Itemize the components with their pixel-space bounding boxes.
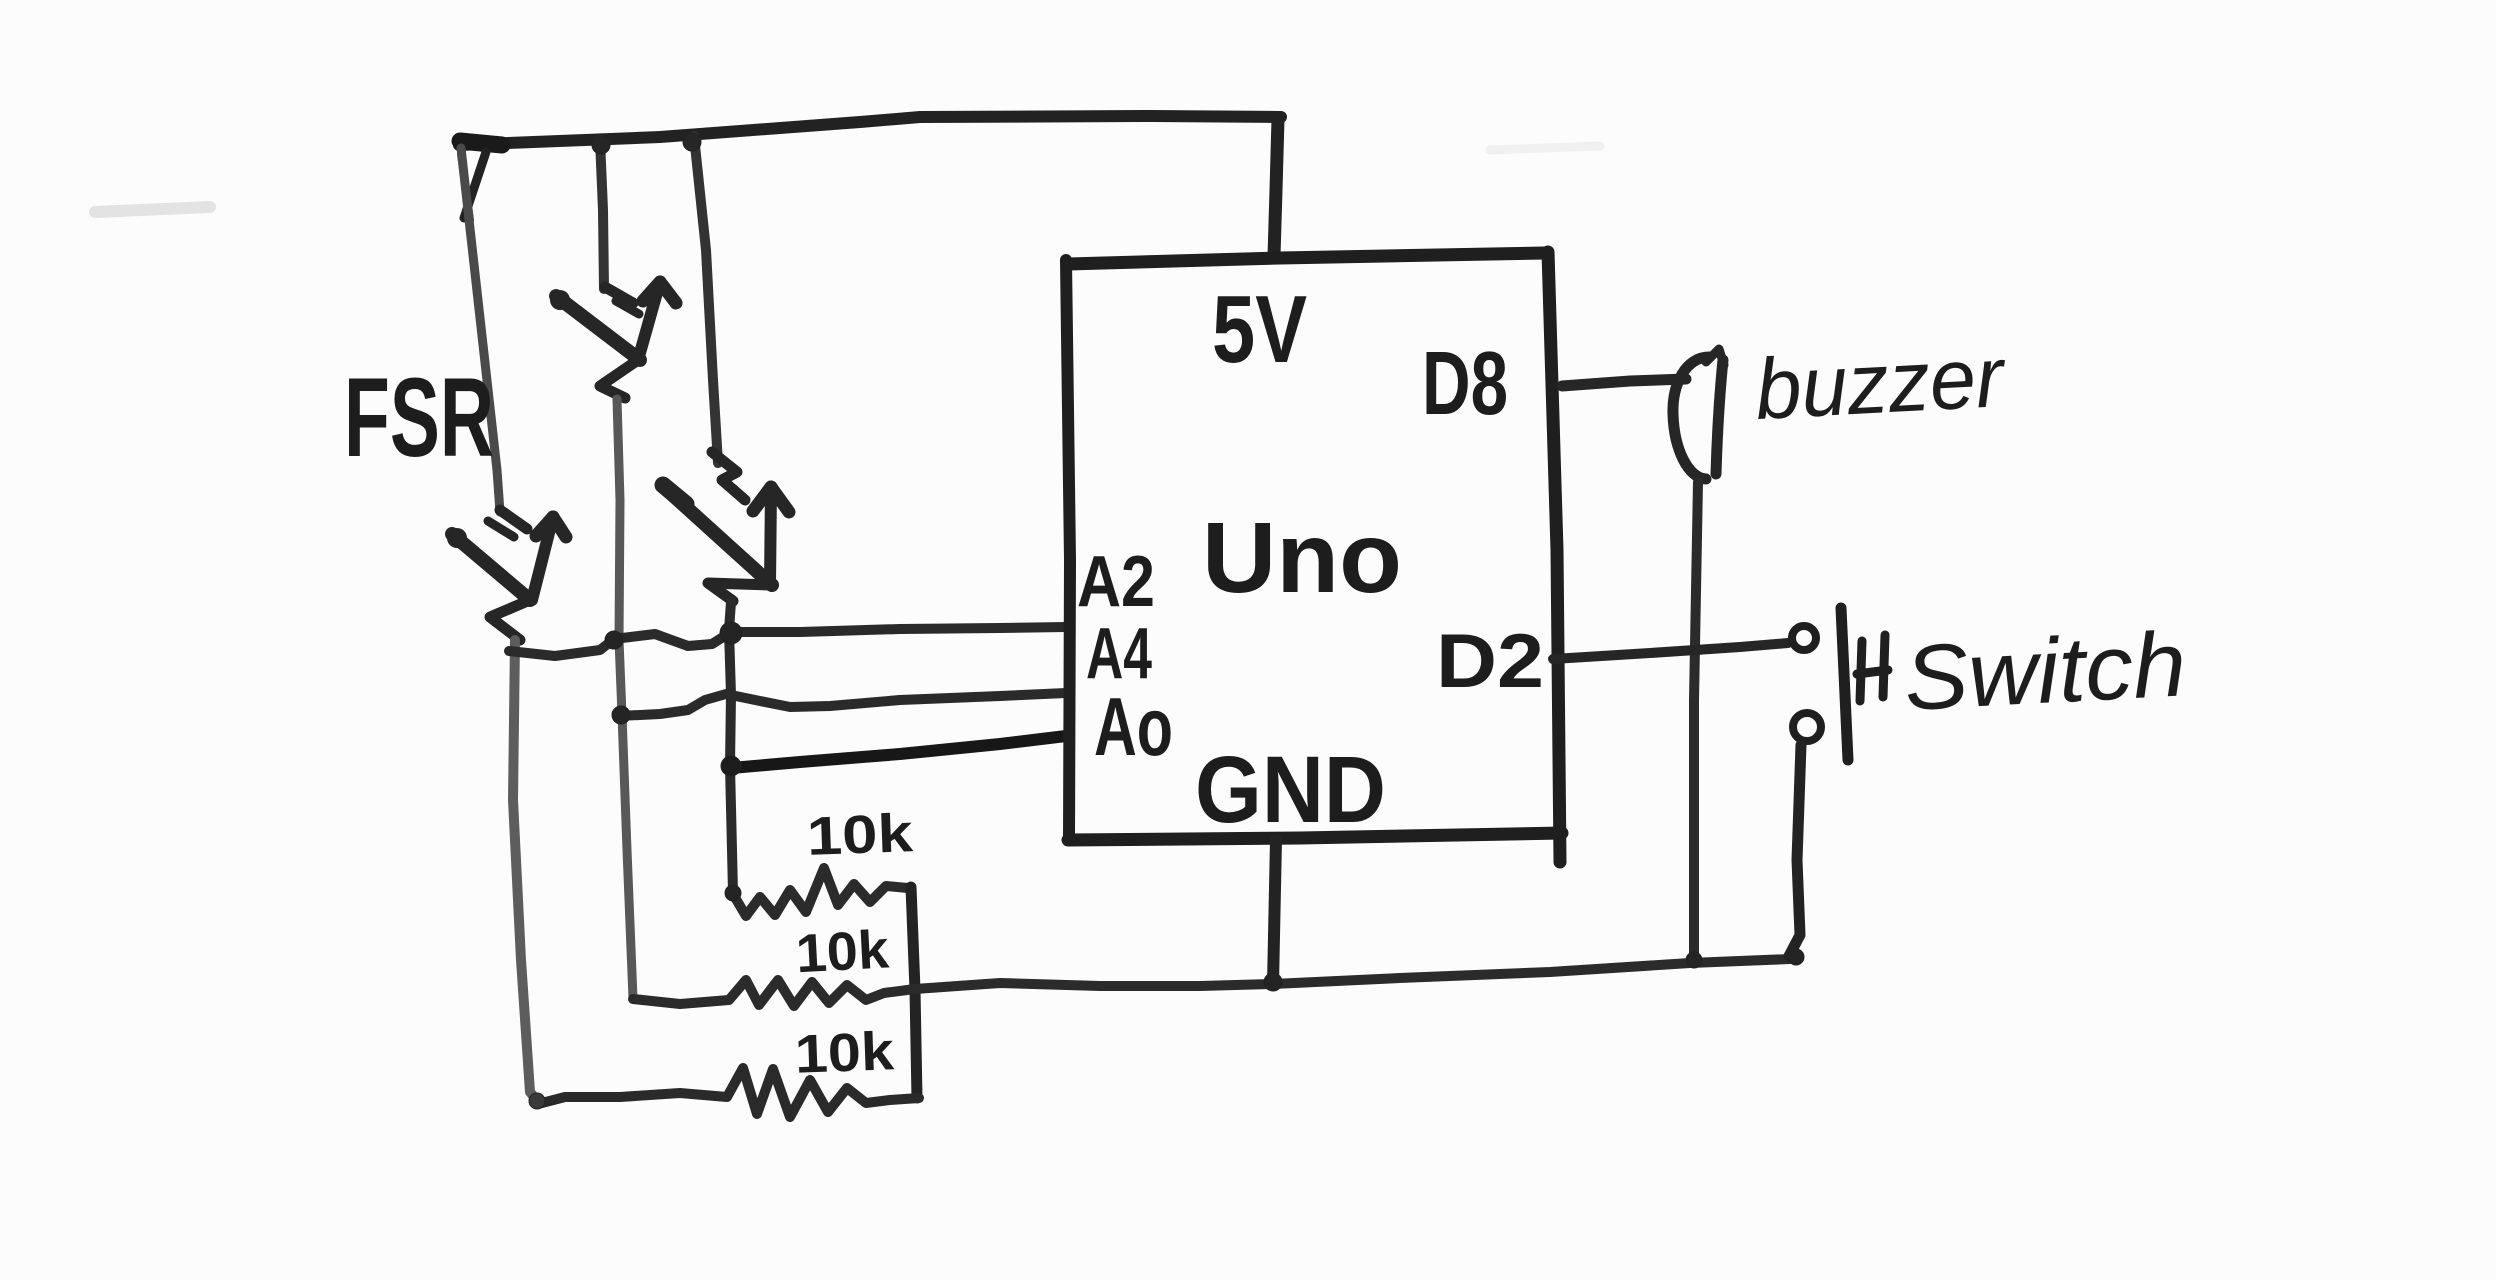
node junction wire A0 x FSR3	[721, 756, 741, 776]
Uno box	[1066, 252, 1562, 862]
wire D8 to buzzer	[1562, 379, 1686, 386]
switch SW1	[1792, 608, 1888, 760]
resistor FSR3 (right force sensor)	[663, 452, 789, 601]
wire A0 from FSR3 chain to Uno	[731, 736, 1066, 768]
resistor FSR2 (middle force sensor)	[550, 282, 676, 398]
resistor FSR1 (left force sensor)	[447, 510, 566, 640]
node FSR2 top junction	[592, 136, 610, 154]
node junction buzzer x bus	[1686, 952, 1702, 968]
svg-text:Ao: Ao	[1094, 680, 1173, 773]
wire FSR2 down to resistor R2	[617, 399, 633, 998]
wire switch down to GND bus	[1789, 745, 1801, 956]
resistor R3 10k	[538, 1068, 919, 1117]
wire vertical from bus to FSR2	[600, 140, 604, 289]
node junction R1 left	[725, 885, 741, 901]
buzzer	[1673, 349, 1724, 479]
node bottom-left corner	[529, 1093, 545, 1109]
wire FSR3 down to resistor R1	[729, 602, 733, 892]
wire vertical from bus to FSR3	[694, 136, 718, 463]
wire GND pin down	[1273, 840, 1276, 984]
wire 5V drop to Uno	[1274, 119, 1278, 256]
svg-text:FSR: FSR	[344, 355, 494, 480]
node junction wire A2 x FSR2	[605, 631, 623, 649]
wire buzzer down to GND bus	[1694, 482, 1698, 957]
resistor R2 10k and wire GND bus	[633, 959, 1790, 1006]
node bus right end	[1788, 949, 1804, 965]
svg-text:D2: D2	[1436, 619, 1544, 704]
svg-text:A2: A2	[1077, 542, 1155, 622]
resistor R1 10k	[733, 868, 908, 916]
node junction GND x bus	[1264, 973, 1282, 991]
node top-left corner tick	[464, 152, 486, 218]
wire A4 from FSR2 chain to Uno	[619, 693, 1066, 716]
svg-text:Uno: Uno	[1202, 502, 1402, 614]
wire A2 from FSR1 chain to Uno	[509, 627, 1066, 656]
svg-text:D8: D8	[1422, 334, 1508, 434]
node junction wire A2 x FSR3	[720, 622, 742, 644]
wire vertical from bus to FSR1	[461, 148, 500, 512]
wire FSR1 down to bottom resistor	[513, 640, 539, 1103]
wire 5V top bus	[459, 116, 1281, 145]
wire R1/R3 right vertical join	[911, 887, 917, 1098]
wire D2 to switch	[1553, 643, 1788, 659]
svg-text:5V: 5V	[1212, 276, 1307, 383]
svg-text:10k: 10k	[794, 919, 891, 984]
svg-text:10k: 10k	[806, 803, 915, 867]
svg-text:10k: 10k	[794, 1021, 896, 1084]
node junction wire A4 x FSR2	[612, 706, 630, 724]
svg-text:buzzer: buzzer	[1753, 329, 2009, 438]
node FSR3 top junction	[683, 133, 701, 151]
svg-text:GND: GND	[1195, 737, 1386, 843]
svg-text:Switch: Switch	[1902, 613, 2189, 730]
node bus left corner (inky)	[460, 141, 502, 145]
